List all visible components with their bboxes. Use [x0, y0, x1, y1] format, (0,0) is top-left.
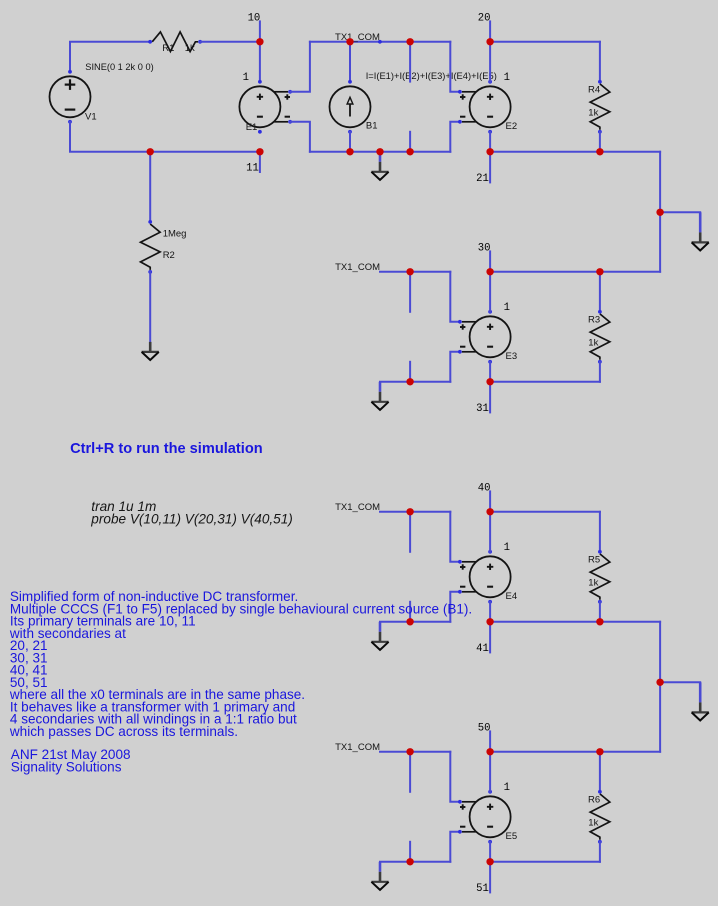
- svg-text:R6: R6: [588, 794, 600, 805]
- junction bottom stub (E5 row): [406, 858, 413, 865]
- wire bottom rail (B1 row): [310, 151, 450, 153]
- svg-text:1: 1: [504, 302, 510, 314]
- wire R1 to node 10: [200, 41, 260, 43]
- resistor R4: [590, 80, 610, 134]
- wire R3 drop: [599, 272, 601, 312]
- wire R2 to ground: [149, 272, 151, 342]
- dependent source E2: [458, 80, 511, 134]
- svg-text:E3: E3: [506, 351, 518, 362]
- wire E2 bottom pin: [489, 132, 491, 152]
- behavioural source B1: [330, 80, 371, 134]
- wire E3 - control: [450, 352, 459, 382]
- svg-text:R4: R4: [588, 84, 600, 95]
- wire TX1_COM (E4 row): [380, 511, 450, 513]
- ground R2: [142, 342, 159, 360]
- svg-text:R5: R5: [588, 554, 600, 565]
- resistor R1: [148, 32, 202, 52]
- wire R5 drop: [599, 512, 601, 552]
- svg-text:R1: R1: [162, 43, 174, 54]
- stub below TX rail (E3 row): [409, 272, 411, 312]
- svg-text:SINE(0 1 2k 0 0): SINE(0 1 2k 0 0): [85, 62, 153, 72]
- svg-text:probe V(10,11) V(20,31) V(40,5: probe V(10,11) V(20,31) V(40,51): [90, 512, 293, 527]
- svg-text:21: 21: [476, 173, 489, 185]
- svg-text:1k: 1k: [588, 107, 598, 118]
- wire node 51 rail: [490, 861, 600, 863]
- ground right A: [692, 212, 709, 250]
- ground (E4 row): [371, 622, 388, 650]
- wire E2 + control: [450, 42, 459, 92]
- node 11 stub: [259, 152, 261, 172]
- svg-text:41: 41: [476, 643, 489, 655]
- signature ANF: [11, 747, 131, 774]
- stub above bottom rail (row1): [409, 132, 411, 152]
- junction TX stub top (row1): [406, 38, 413, 45]
- wire node 30 rail: [490, 271, 660, 273]
- wire E3 bottom pin: [489, 362, 491, 382]
- wire E4 - control: [450, 592, 459, 622]
- wire E5 + control: [450, 752, 459, 802]
- wire E1 - control to bottom rail: [290, 122, 310, 152]
- wire E4 bottom pin: [489, 602, 491, 622]
- svg-text:TX1_COM: TX1_COM: [335, 742, 380, 753]
- wire R5 bottom: [599, 602, 601, 622]
- svg-text:TX1_COM: TX1_COM: [335, 262, 380, 273]
- wire bottom rail left (E5 row): [380, 861, 450, 863]
- junction node 20: [486, 38, 493, 45]
- junction node 51: [486, 858, 493, 865]
- svg-text:1k: 1k: [185, 43, 195, 54]
- svg-text:20: 20: [478, 13, 491, 25]
- junction TX (E4 row): [406, 508, 413, 515]
- wire TX1_COM (E5 row): [380, 751, 450, 753]
- wire node 41 rail: [490, 621, 660, 623]
- wire E3 + control: [450, 272, 459, 322]
- junction TX (E5 row): [406, 748, 413, 755]
- node 21 stub: [489, 152, 491, 183]
- stub below TX rail (E4 row): [409, 512, 411, 552]
- svg-text:1: 1: [504, 72, 510, 84]
- svg-text:1: 1: [504, 542, 510, 554]
- junction R4 bottom tap: [596, 148, 603, 155]
- junction R5 bottom tap: [596, 618, 603, 625]
- wire bottom rail left (E4 row): [380, 621, 450, 623]
- stub below TX rail (row1): [409, 42, 411, 82]
- junction node 10: [256, 38, 263, 45]
- junction ground tap (B1 row): [376, 148, 383, 155]
- svg-text:30: 30: [478, 243, 491, 255]
- wire right rail (21 to 30): [659, 152, 661, 272]
- node 40 stub: [489, 491, 491, 511]
- junction node 30: [486, 268, 493, 275]
- junction B1 top: [346, 38, 353, 45]
- junction ground tap B: [656, 679, 663, 686]
- svg-text:E4: E4: [506, 591, 518, 602]
- junction bottom stub (row1): [406, 148, 413, 155]
- stub above bottom rail (E3 row): [409, 362, 411, 382]
- svg-text:1k: 1k: [588, 817, 598, 828]
- wire branch ground A: [660, 211, 700, 213]
- ground (E5 row): [371, 862, 388, 890]
- junction node 11: [256, 148, 263, 155]
- stub below TX rail (E5 row): [409, 752, 411, 792]
- svg-text:I=I(E1)+I(E2)+I(E3)+I(E4)+I(E5: I=I(E1)+I(E2)+I(E3)+I(E4)+I(E5): [366, 71, 497, 81]
- wire rail to R2: [149, 152, 151, 222]
- svg-text:1k: 1k: [588, 577, 598, 588]
- junction R3 top tap: [596, 268, 603, 275]
- dependent source E5: [458, 790, 511, 844]
- svg-text:40: 40: [478, 483, 491, 495]
- svg-text:1: 1: [504, 782, 510, 794]
- wire R3 bottom: [599, 362, 601, 382]
- wire node 20 to E2 top pin: [489, 42, 491, 82]
- svg-text:E2: E2: [506, 121, 518, 132]
- dependent source E1: [239, 80, 292, 134]
- wire B1 top: [349, 42, 351, 82]
- wire right rail (41 to 50): [659, 622, 661, 752]
- junction node 31: [486, 378, 493, 385]
- svg-text:Signality Solutions: Signality Solutions: [11, 759, 122, 774]
- node 30 stub: [489, 251, 491, 271]
- dependent source E3: [458, 310, 511, 364]
- ground B1 row: [371, 152, 388, 180]
- wire node 40 rail: [490, 511, 600, 513]
- wire E5 - control: [450, 832, 459, 862]
- stub above bottom rail (E4 row): [409, 602, 411, 622]
- wire E4 + control: [450, 512, 459, 562]
- wire R6 drop: [599, 752, 601, 792]
- resistor R5: [590, 550, 610, 604]
- wire node 40 to E4 top pin: [489, 512, 491, 552]
- junction node 41: [486, 618, 493, 625]
- ground right B: [692, 682, 709, 720]
- wire node 20 rail: [490, 41, 600, 43]
- junction node 40: [486, 508, 493, 515]
- wire node 30 to E3 top pin: [489, 272, 491, 312]
- wire node 10 to E1 top pin: [259, 42, 261, 82]
- svg-text:10: 10: [248, 13, 261, 25]
- node 51 stub: [489, 862, 491, 893]
- junction R2 tap: [147, 148, 154, 155]
- wire node 31 rail: [490, 381, 600, 383]
- svg-text:TX1_COM: TX1_COM: [335, 502, 380, 513]
- resistor R6: [590, 790, 610, 844]
- node 50 stub: [489, 731, 491, 751]
- wire B1 bottom: [349, 132, 351, 152]
- wire bottom rail left (E3 row): [380, 381, 450, 383]
- wire R4 bottom: [599, 132, 601, 152]
- wire node 21 rail: [490, 151, 660, 153]
- wire V1 top to R1: [70, 42, 150, 72]
- wire E1 + control to TX rail: [290, 42, 310, 92]
- svg-text:E5: E5: [506, 831, 518, 842]
- svg-text:Ctrl+R to run the simulation: Ctrl+R to run the simulation: [70, 441, 263, 457]
- wire V1 bottom to node 11: [70, 122, 260, 152]
- svg-text:B1: B1: [366, 121, 378, 132]
- svg-text:31: 31: [476, 403, 489, 415]
- node 41 stub: [489, 622, 491, 653]
- svg-text:R2: R2: [163, 250, 175, 261]
- wire R6 bottom: [599, 842, 601, 862]
- dependent source E4: [458, 550, 511, 604]
- svg-text:which passes DC across its ter: which passes DC across its terminals.: [9, 724, 238, 739]
- junction bottom stub (E3 row): [406, 378, 413, 385]
- resistor R2: [141, 220, 161, 274]
- junction node 21: [486, 148, 493, 155]
- svg-text:R3: R3: [588, 314, 600, 325]
- svg-text:TX1_COM: TX1_COM: [335, 32, 380, 43]
- wire E5 bottom pin: [489, 842, 491, 862]
- wire node 50 rail: [490, 751, 660, 753]
- stub above bottom rail (E5 row): [409, 842, 411, 862]
- comment paragraph: [9, 589, 472, 739]
- resistor R3: [590, 310, 610, 364]
- junction TX (E3 row): [406, 268, 413, 275]
- svg-text:E1: E1: [246, 122, 258, 133]
- wire node 50 to E5 top pin: [489, 752, 491, 792]
- svg-text:51: 51: [476, 883, 489, 895]
- svg-text:50: 50: [478, 723, 491, 735]
- voltage source V1: [50, 70, 91, 124]
- junction bottom stub (E4 row): [406, 618, 413, 625]
- svg-text:1k: 1k: [588, 337, 598, 348]
- node 31 stub: [489, 382, 491, 413]
- node 10 stub: [259, 21, 261, 41]
- svg-text:1Meg: 1Meg: [163, 228, 187, 239]
- wire TX1_COM (E3 row): [380, 271, 450, 273]
- node 20 stub: [489, 21, 491, 41]
- wire branch ground B: [660, 681, 700, 683]
- junction node 50: [486, 748, 493, 755]
- svg-text:V1: V1: [85, 112, 97, 123]
- wire E2 - control: [450, 122, 459, 152]
- junction ground tap A: [656, 209, 663, 216]
- wire TX1_COM rail: [310, 41, 450, 43]
- svg-text:11: 11: [246, 163, 259, 175]
- svg-text:1: 1: [243, 72, 249, 84]
- wire R4 drop: [599, 42, 601, 82]
- junction B1 bottom: [346, 148, 353, 155]
- junction R6 top tap: [596, 748, 603, 755]
- ground (E3 row): [371, 382, 388, 410]
